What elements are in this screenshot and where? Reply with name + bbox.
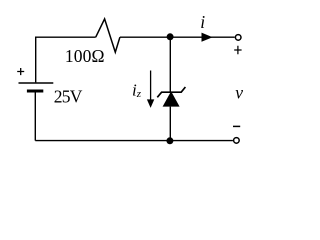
zener diode D1 anode triangle [163, 91, 180, 106]
node B: junction dot bottom [166, 137, 173, 144]
terminal node: bottom-right open circle [234, 138, 240, 144]
wire: zener branch upper vertical [169, 37, 171, 92]
svg-text:i: i [200, 12, 205, 32]
svg-text:25V: 25V [54, 86, 83, 106]
wire: top-left from corner to resistor [36, 36, 96, 38]
terminal node: top-right open circle [235, 35, 241, 41]
svg-text:iz: iz [132, 80, 142, 100]
battery V1 negative short thick plate [27, 90, 43, 93]
battery V1 positive long plate [19, 82, 54, 84]
wire: bottom rail [35, 140, 233, 142]
svg-text:100Ω: 100Ω [65, 46, 105, 66]
zener current arrow i_z (shaft) [150, 71, 152, 101]
wire: zener branch lower vertical [169, 107, 171, 141]
zener current arrowhead [147, 99, 154, 108]
svg-text:v: v [235, 82, 243, 102]
zener diode D1 cathode bar with bent ends [157, 87, 185, 97]
minus polarity mark for v [233, 125, 240, 127]
node A: junction dot top [167, 33, 174, 40]
resistor R (100 ohm) zigzag [96, 19, 120, 52]
wire: resistor to top-right terminal [120, 36, 235, 38]
battery plus sign [17, 68, 24, 75]
current arrowhead for i on top wire [202, 33, 213, 42]
wire: battery negative to bottom-left corner [34, 92, 36, 140]
wire: left branch vertical (top corner down to battery) [35, 37, 37, 83]
plus polarity mark for v [234, 46, 241, 54]
